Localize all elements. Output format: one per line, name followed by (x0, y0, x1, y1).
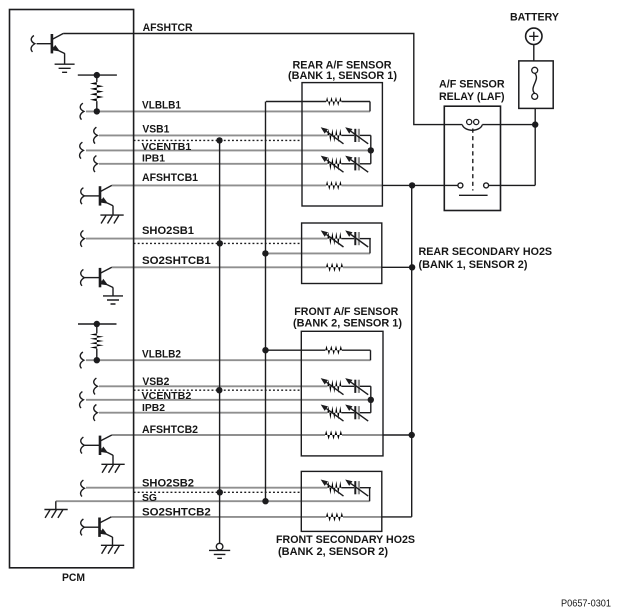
svg-text:(BANK 2, SENSOR 2): (BANK 2, SENSOR 2) (278, 546, 388, 558)
svg-text:VCENTB2: VCENTB2 (142, 391, 192, 402)
svg-text:FRONT A/F SENSOR: FRONT A/F SENSOR (294, 306, 398, 318)
svg-text:IPB2: IPB2 (142, 403, 165, 414)
svg-text:SO2SHTCB1: SO2SHTCB1 (142, 255, 211, 267)
svg-text:IPB1: IPB1 (142, 154, 165, 165)
svg-text:VSB2: VSB2 (142, 376, 169, 388)
svg-text:FRONT SECONDARY HO2S: FRONT SECONDARY HO2S (276, 534, 415, 546)
svg-text:SO2SHTCB2: SO2SHTCB2 (142, 506, 211, 518)
svg-text:(BANK 1, SENSOR 1): (BANK 1, SENSOR 1) (288, 70, 397, 82)
svg-text:AFSHTCR: AFSHTCR (143, 22, 193, 34)
svg-text:(BANK 1, SENSOR 2): (BANK 1, SENSOR 2) (419, 259, 528, 271)
svg-text:REAR SECONDARY HO2S: REAR SECONDARY HO2S (419, 246, 553, 258)
svg-text:VSB1: VSB1 (142, 123, 169, 135)
svg-text:P0657-0301: P0657-0301 (561, 597, 611, 609)
svg-text:PCM: PCM (62, 572, 85, 584)
svg-text:BATTERY: BATTERY (510, 11, 560, 23)
svg-text:RELAY (LAF): RELAY (LAF) (439, 91, 505, 103)
svg-text:VLBLB2: VLBLB2 (142, 348, 181, 360)
svg-text:SG: SG (142, 493, 157, 504)
svg-text:SHO2SB1: SHO2SB1 (142, 225, 194, 237)
svg-text:A/F SENSOR: A/F SENSOR (439, 79, 505, 91)
svg-text:VLBLB1: VLBLB1 (142, 100, 181, 112)
svg-text:SHO2SB2: SHO2SB2 (142, 477, 194, 489)
svg-text:VCENTB1: VCENTB1 (142, 142, 192, 153)
svg-text:AFSHTCB2: AFSHTCB2 (142, 424, 198, 436)
svg-text:(BANK 2, SENSOR 1): (BANK 2, SENSOR 1) (293, 317, 402, 329)
svg-text:AFSHTCB1: AFSHTCB1 (142, 172, 198, 184)
